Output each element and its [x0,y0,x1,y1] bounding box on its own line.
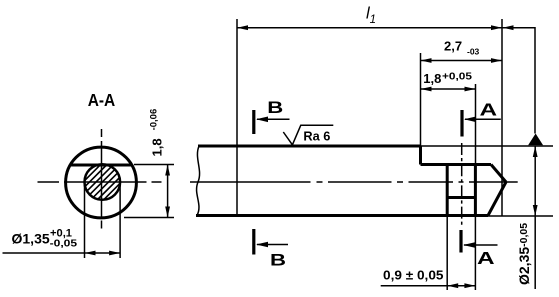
dimension 0,9 line with arrows [381,285,476,287]
section mark B top stroke [252,110,255,134]
svg-text:A-A: A-A [88,90,116,110]
dimension 2,7-03 line with arrows [421,60,503,62]
extension line left for l1 [236,19,238,216]
main view: top edge [198,145,421,148]
surface roughness mark Ra 6 [283,125,333,145]
extension lines for 0,9 dimension [446,216,448,290]
extension line bottom for Ø2,35 [488,215,553,217]
horizontal centerline of section [38,181,162,183]
section mark B top arrow [257,118,290,120]
main view: internal vertical edge right [474,165,477,216]
svg-text:1,8: 1,8 [423,71,441,86]
dimension Ø2,35 line with arrows [534,146,536,289]
svg-text:A: A [480,99,498,119]
extension line top for Ø2,35 [421,145,554,147]
svg-text:-03: -03 [467,47,480,57]
main view: step down at slot start [419,146,422,165]
section mark B bottom stroke [252,229,255,255]
dimension Ø1,35 line with arrows [3,252,121,254]
vertical centerline of section [101,129,103,229]
svg-text:B: B [270,251,286,269]
svg-text:-0,05: -0,05 [50,238,78,250]
svg-text:+0,05: +0,05 [442,72,473,83]
main view: cone tip chamfers [491,165,506,183]
main view: horizontal centerline [190,181,518,183]
svg-text:Ra 6: Ra 6 [303,130,330,144]
section mark A bottom stroke [459,230,462,253]
section mark A top stroke [460,110,463,137]
dimension l1 line with arrows [237,27,502,29]
datum leader with arrow [503,28,536,134]
dimension 1,8+0,05 line with arrows [421,88,476,90]
svg-text:A: A [477,248,495,268]
extension line for slot left edge [420,53,422,146]
chord flat line on section [70,164,132,167]
section mark B bottom arrow [257,244,288,246]
svg-text:2,7: 2,7 [444,39,462,54]
section mark A bottom arrow [464,244,498,246]
main view: bottom edge [196,214,488,217]
inner hatched circle (core) [85,164,121,200]
svg-text:B: B [267,99,283,117]
dimension Ø1,35 extension lines [84,184,86,258]
main view: flat top line [421,163,492,166]
svg-text:Ø1,35: Ø1,35 [12,231,50,247]
svg-text:0,9 ± 0,05: 0,9 ± 0,05 [383,268,444,283]
main view: internal horizontal edge [447,196,475,199]
outer circle of section A-A [66,147,137,218]
datum triangle [528,134,543,146]
section mark A top arrow [465,118,501,120]
svg-text:Ø2,35-0,05: Ø2,35-0,05 [516,223,532,285]
main view: break line (left end) [197,146,200,216]
dimension 1,8-0,06 extension lines [134,164,174,166]
A-A cutting plane centerline [461,143,463,227]
main view: internal vertical edge left [446,165,449,216]
dimension 1,8-0,06 line with arrows [167,165,169,218]
extension line right for l1 and 2,7 [501,19,503,216]
extension line for 1,8 right [475,84,477,165]
